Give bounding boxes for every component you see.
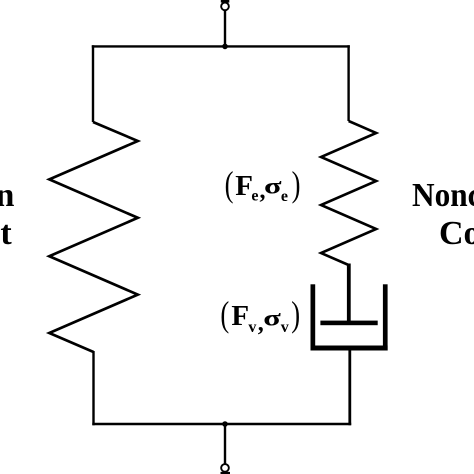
dashpot cup right wall (383, 284, 388, 350)
svg-text:(: ( (225, 164, 234, 204)
svg-text:Com: Com (439, 215, 474, 252)
svg-text:F: F (231, 300, 249, 332)
wire: left branch bottom lead (92, 351, 94, 425)
bottom terminal stub (221, 472, 231, 474)
svg-text:σ: σ (264, 174, 282, 199)
svg-text:e: e (251, 187, 258, 204)
node: bottom junction (222, 421, 228, 427)
svg-text:on: on (0, 177, 15, 214)
top terminal circle (221, 3, 229, 11)
svg-text:σ: σ (263, 306, 281, 331)
svg-text:): ) (292, 164, 301, 204)
wire: left branch top lead (92, 45, 94, 122)
svg-text:(: ( (220, 294, 229, 334)
wire: bottom rail (92, 423, 351, 425)
label: (Fv, sigma_v) (220, 294, 300, 336)
wire: top terminal to top rail (224, 10, 226, 47)
svg-text:v: v (281, 319, 289, 336)
top terminal stub (221, 0, 230, 3)
label: (Fe, sigma_e) (225, 164, 301, 205)
svg-text:): ) (291, 294, 300, 334)
svg-text:Nonc: Nonc (412, 177, 474, 214)
dashpot piston plate (320, 321, 377, 326)
dashpot cup bottom (311, 346, 388, 351)
dashpot cup left wall (311, 284, 316, 350)
node: top junction (222, 44, 228, 50)
svg-text:v: v (248, 319, 256, 336)
wire: top rail (92, 45, 350, 47)
svg-text:nt: nt (0, 215, 12, 252)
wire: bottom rail to bottom terminal (224, 424, 226, 464)
spring (left, contractile element) (49, 122, 138, 352)
wire: dashpot to bottom rail (348, 350, 351, 425)
svg-text:F: F (235, 170, 253, 202)
spring (right, elastic) label (Fe,sigma_e) above (321, 121, 376, 265)
wire: right branch top lead (347, 45, 349, 121)
dashpot piston rod (347, 264, 351, 323)
svg-text:e: e (281, 188, 288, 205)
bottom terminal circle (221, 464, 229, 472)
